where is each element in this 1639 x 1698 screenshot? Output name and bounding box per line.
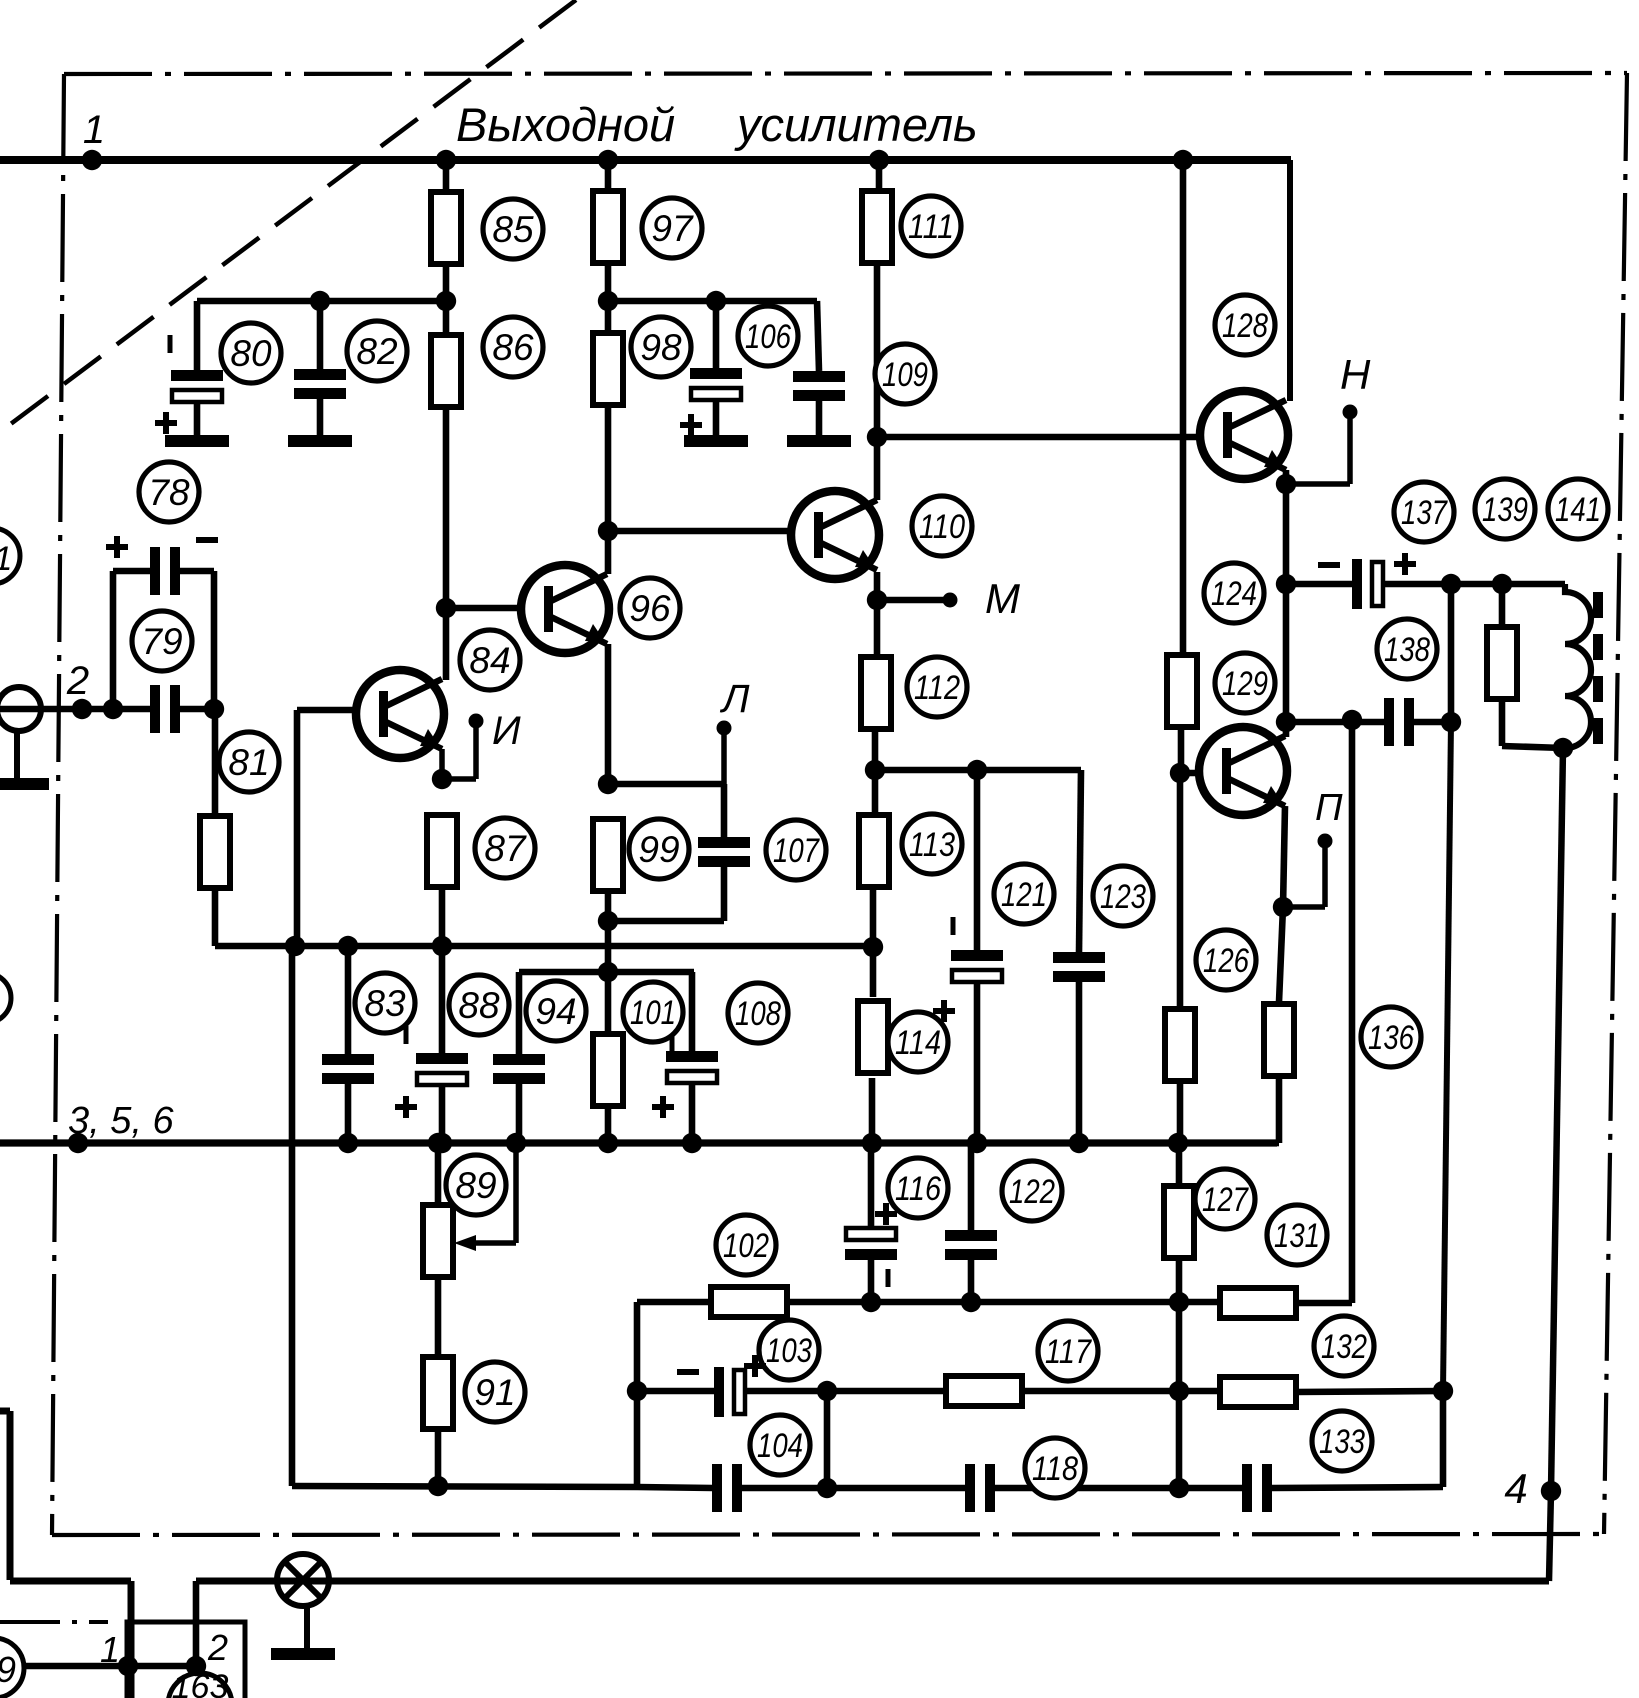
svg-text:82: 82 [356, 331, 398, 372]
svg-text:104: 104 [757, 1427, 803, 1465]
svg-text:89: 89 [455, 1165, 496, 1206]
svg-text:4: 4 [1504, 1465, 1527, 1512]
svg-text:99: 99 [638, 829, 679, 870]
svg-text:101: 101 [630, 994, 676, 1032]
svg-text:111: 111 [908, 208, 954, 246]
svg-text:110: 110 [919, 508, 965, 546]
svg-text:80: 80 [230, 333, 272, 374]
svg-text:128: 128 [1222, 307, 1268, 345]
svg-text:9: 9 [0, 1649, 16, 1690]
svg-text:И: И [492, 709, 521, 753]
svg-text:усилитель: усилитель [734, 98, 978, 151]
svg-text:П: П [1315, 787, 1343, 829]
svg-text:1: 1 [0, 540, 12, 578]
svg-text:113: 113 [909, 826, 955, 864]
svg-text:Н: Н [1340, 351, 1371, 398]
svg-text:107: 107 [773, 832, 820, 870]
svg-text:3, 5, 6: 3, 5, 6 [68, 1100, 174, 1142]
svg-text:112: 112 [914, 669, 960, 707]
svg-text:М: М [985, 575, 1020, 622]
svg-text:131: 131 [1274, 1217, 1320, 1255]
svg-text:1: 1 [100, 1629, 120, 1670]
svg-text:78: 78 [148, 472, 190, 513]
svg-text:84: 84 [469, 640, 510, 681]
svg-text:141: 141 [1555, 491, 1601, 529]
svg-text:116: 116 [895, 1170, 941, 1208]
svg-text:83: 83 [364, 983, 406, 1024]
svg-text:133: 133 [1319, 1423, 1365, 1461]
svg-text:132: 132 [1321, 1328, 1367, 1366]
svg-text:94: 94 [535, 991, 576, 1032]
svg-text:122: 122 [1009, 1173, 1055, 1211]
svg-text:Выходной: Выходной [456, 98, 675, 151]
svg-text:Л: Л [719, 677, 750, 721]
svg-text:137: 137 [1401, 494, 1448, 532]
svg-text:138: 138 [1384, 631, 1430, 669]
svg-text:88: 88 [458, 985, 500, 1026]
svg-text:121: 121 [1001, 876, 1047, 914]
svg-text:109: 109 [882, 356, 928, 394]
svg-text:118: 118 [1032, 1450, 1078, 1488]
svg-text:86: 86 [492, 327, 534, 368]
svg-text:85: 85 [492, 209, 534, 250]
svg-text:97: 97 [651, 208, 694, 249]
svg-text:96: 96 [629, 588, 671, 629]
svg-text:91: 91 [474, 1372, 515, 1413]
svg-text:139: 139 [1482, 491, 1528, 529]
svg-text:126: 126 [1203, 942, 1249, 980]
svg-text:129: 129 [1222, 665, 1268, 703]
svg-text:106: 106 [745, 318, 791, 356]
svg-text:103: 103 [766, 1332, 812, 1370]
svg-text:102: 102 [723, 1227, 769, 1265]
svg-text:127: 127 [1202, 1181, 1249, 1219]
svg-text:87: 87 [484, 828, 527, 869]
svg-text:108: 108 [735, 995, 781, 1033]
svg-text:98: 98 [640, 327, 682, 368]
svg-text:123: 123 [1100, 878, 1146, 916]
svg-text:2: 2 [66, 659, 89, 703]
svg-text:136: 136 [1368, 1019, 1414, 1057]
svg-text:117: 117 [1045, 1333, 1092, 1371]
svg-text:79: 79 [141, 621, 182, 662]
svg-text:2: 2 [207, 1627, 228, 1668]
svg-text:124: 124 [1211, 575, 1257, 613]
svg-text:81: 81 [228, 742, 269, 783]
svg-text:1: 1 [83, 108, 105, 152]
svg-text:114: 114 [895, 1024, 941, 1062]
